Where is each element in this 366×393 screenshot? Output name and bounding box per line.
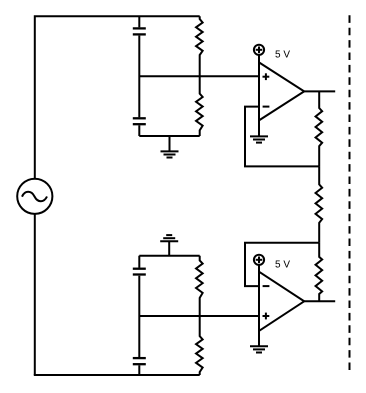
source V1	[17, 179, 52, 214]
ground U2	[250, 331, 268, 353]
wire bottom rail	[34, 374, 200, 376]
wire C3 top lead	[138, 256, 140, 268]
ground U1	[250, 120, 268, 142]
power symbol U1 5V	[254, 45, 264, 63]
capacitor C1	[133, 28, 146, 34]
capacitor C4	[133, 358, 146, 364]
resistor R2	[196, 76, 203, 136]
wire C4 bottom lead	[138, 365, 140, 375]
wire C2 bottom lead	[138, 125, 140, 136]
wire C3-C4	[138, 276, 140, 357]
power symbol U2 5V	[254, 255, 264, 272]
capacitor C3	[133, 269, 146, 275]
wire C1 top lead	[138, 16, 140, 27]
resistor R1	[196, 16, 203, 76]
op-amp U2	[259, 272, 304, 331]
wire U1 feedback -in to node A	[245, 107, 319, 167]
wire C1-C2	[138, 36, 140, 118]
resistor R6	[316, 166, 323, 242]
dashed boundary line	[349, 15, 351, 370]
wire top network bottom	[139, 135, 199, 137]
capacitor C2	[133, 118, 146, 124]
wire left rail bottom	[34, 214, 36, 375]
wire U2 output	[304, 300, 335, 302]
resistor R5	[316, 91, 323, 166]
resistor R3	[196, 256, 203, 316]
op-amp U1	[259, 62, 304, 120]
wire bottom network top	[139, 255, 199, 257]
ground top network	[161, 136, 179, 158]
wire U1 output	[304, 90, 335, 92]
resistor R7	[316, 243, 323, 302]
svg-text:5 V: 5 V	[275, 49, 290, 60]
wire node bottom network to U2 +in	[139, 315, 259, 317]
svg-text:5 V: 5 V	[275, 259, 290, 270]
resistor R4	[196, 316, 203, 375]
wire U2 feedback node B to -in	[245, 243, 319, 286]
wire left rail + top rail	[35, 16, 200, 179]
ground bottom network inverted	[160, 235, 178, 256]
wire node top network to U1 +in	[139, 75, 259, 77]
